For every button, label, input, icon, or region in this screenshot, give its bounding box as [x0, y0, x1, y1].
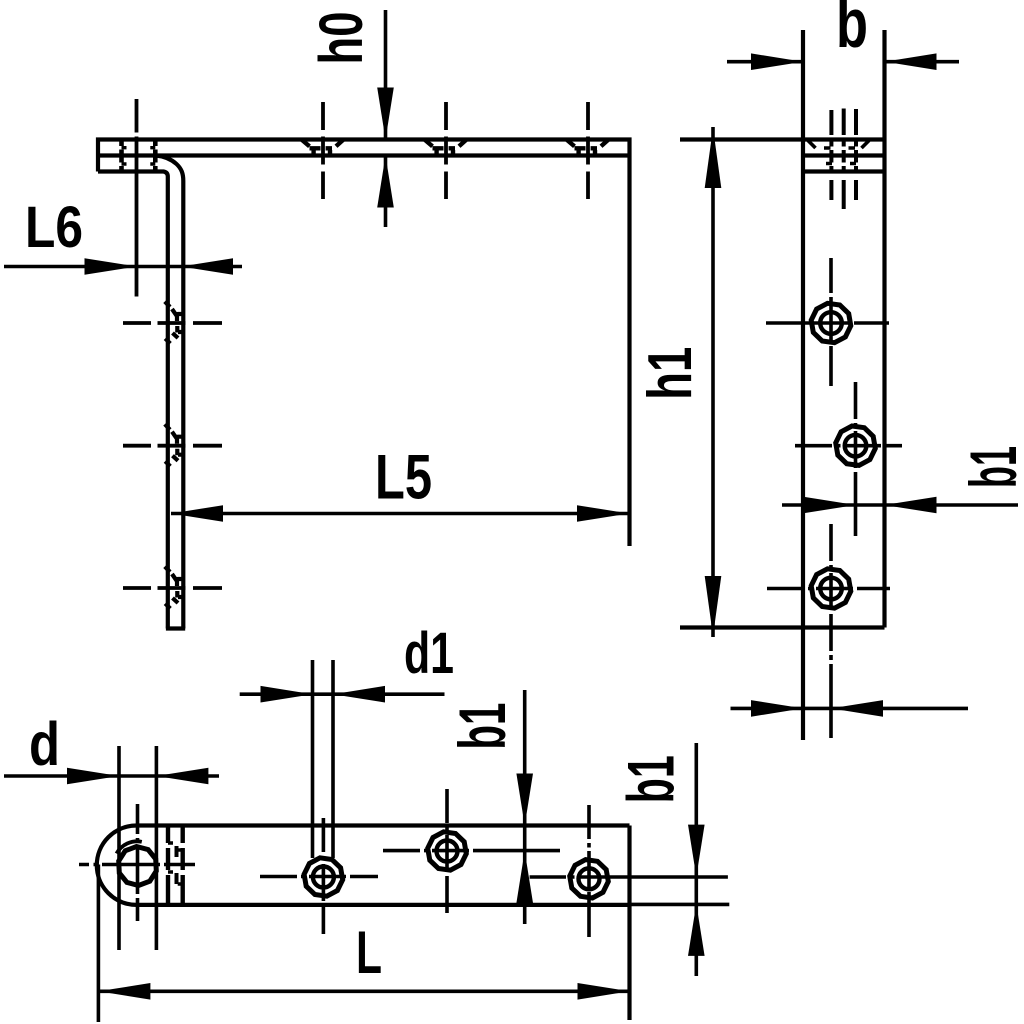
svg-text:L: L: [356, 919, 382, 986]
svg-text:b1: b1: [956, 446, 1024, 488]
svg-text:d: d: [29, 710, 60, 778]
svg-text:L6: L6: [25, 195, 83, 260]
svg-text:b1: b1: [445, 703, 519, 750]
svg-text:h0: h0: [307, 12, 375, 65]
svg-text:h1: h1: [636, 347, 705, 400]
svg-text:b1: b1: [613, 755, 687, 803]
svg-text:b: b: [836, 0, 868, 62]
svg-text:d1: d1: [404, 621, 454, 686]
svg-text:L5: L5: [375, 443, 432, 513]
